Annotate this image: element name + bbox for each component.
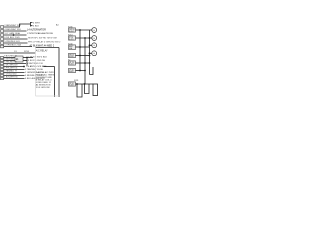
bus wire x89 [89,30,91,75]
svg-text:PHS LP RELAY 4 GRN HD SW 2: PHS LP RELAY 4 GRN HD SW 2 [28,41,61,44]
wire pin2 [4,30,27,32]
wire B5 [4,69,25,71]
svg-text:S214: S214 [68,34,72,36]
connector C201 pin 5 box [1,42,4,45]
wire B6 [4,72,25,74]
wire R6 [76,70,86,72]
connector C202 pin 4 box [1,65,4,67]
svg-text:S2: S2 [68,59,70,61]
svg-text:A 590: A 590 [69,55,73,58]
svg-text:G: G [93,38,95,40]
fuse box R6 [69,68,76,72]
connector C201 pin 2 box [1,30,4,33]
svg-text:2 BRN/WHT 204: 2 BRN/WHT 204 [4,25,21,27]
junction dot R5 bus89 [89,62,91,64]
svg-text:A WHT/RED 118: A WHT/RED 118 [27,62,44,65]
wire feed y53 [0,52,36,54]
svg-text:1 D: 1 D [14,51,18,53]
fuse box R1 [69,28,76,32]
background [0,0,100,100]
connector C202 pin 2 box [1,59,4,61]
svg-text:S240: S240 [68,43,72,45]
svg-text:8 BLK/RED 21: 8 BLK/RED 21 [4,55,18,57]
fuse box R4 [69,53,76,57]
svg-text:3 GRY/RED 14: 3 GRY/RED 14 [4,58,18,60]
svg-text:A/C RELAY: A/C RELAY [36,49,48,52]
stub to ground G3 [90,44,93,46]
junction dot B4 [23,66,25,68]
svg-text:5 PNK/BLK 441: 5 PNK/BLK 441 [4,41,20,43]
junction dot G3 stub [89,44,91,46]
component box U1 outline top [36,47,60,49]
ground G2 [92,36,97,41]
svg-text:HIGH SPL SW HD TM W GM: HIGH SPL SW HD TM W GM [28,38,57,40]
svg-text:A 115: A 115 [69,38,73,41]
wire vertical branch [26,58,28,67]
wire B4 [4,66,25,68]
junction dot R3 bus80 [79,46,81,48]
connector C201 pin 1 box [1,26,4,29]
svg-text:L MODE SW 4 BLK: L MODE SW 4 BLK [28,56,48,58]
wire R2 to G2 [76,37,93,39]
component box U1 outline left [35,48,37,97]
component box U1 outline right [58,48,60,98]
wire R3 to G3 [76,46,90,48]
ground G4 [92,51,97,56]
connector C201 pin 3 box [1,34,4,37]
svg-text:3 LT GRN 150A: 3 LT GRN 150A [4,32,20,35]
svg-text:5 YEL/BLK 66: 5 YEL/BLK 66 [4,61,17,63]
fuse box R7 [69,82,76,86]
wire R1 to G1 [76,29,93,31]
wire pin5 [4,42,28,44]
svg-text:3 TAN/WHT FUSE: 3 TAN/WHT FUSE [25,68,44,71]
svg-text:1 ORG/BLK 2 A4: 1 ORG/BLK 2 A4 [4,43,21,46]
inline component box F1 [15,56,23,62]
wire B4 continue [44,66,55,68]
svg-text:4 BODY GND 2A: 4 BODY GND 2A [28,59,45,62]
junction dot G4 stub [89,52,91,54]
svg-text:4 TAN/BLK 77: 4 TAN/BLK 77 [4,69,17,72]
svg-text:6 DK BLU 2 HD: 6 DK BLU 2 HD [4,37,20,39]
svg-text:4 BLK: 4 BLK [33,26,39,28]
svg-text:S206: S206 [68,26,72,28]
svg-text:C NTR TM AD A ALTR SW: C NTR TM AD A ALTR SW [27,32,54,35]
connector C202 pin 1 box [1,56,4,58]
wire pin6 [4,46,32,48]
svg-text:A 204: A 204 [69,30,73,33]
ground G3 [92,43,97,48]
stub to ground G4 [90,52,93,54]
junction dot R7 a [76,83,78,85]
junction dot R2 bus [84,37,86,39]
junction dot R7 b [84,83,86,85]
svg-text:7 LT BLU 250: 7 LT BLU 250 [4,73,17,75]
wire B8 [4,78,25,80]
svg-text:A 662: A 662 [69,70,73,73]
junction dot bus89 row2 [89,37,91,39]
svg-text:4 WHT: 4 WHT [33,22,40,24]
fuse box R2 [69,36,76,40]
component box U1 outline bottom [36,95,60,97]
svg-text:G: G [93,53,95,55]
svg-text:A2 BLK/WHT A4 MED 2: A2 BLK/WHT A4 MED 2 [30,44,55,47]
junction dot R6 bus85 [84,70,86,72]
junction dot R6 bus80 [79,70,81,72]
svg-text:4 RED/WHT 318: 4 RED/WHT 318 [4,29,21,31]
junction dot R5 bus85 [84,62,86,64]
svg-text:S281: S281 [74,80,78,82]
bus wire x80 [79,30,81,71]
svg-text:1 BLK/WHT 90: 1 BLK/WHT 90 [4,76,18,78]
wire B7 [4,75,25,77]
svg-text:6 PPL/WHT 31: 6 PPL/WHT 31 [4,67,18,69]
bus wire x85 [84,38,86,84]
svg-text:G: G [93,30,95,32]
fuse box R5 [69,61,76,65]
svg-text:4 ANTI-LOCK BRK: 4 ANTI-LOCK BRK [28,65,47,68]
connector C201 pin 6 box [1,45,4,48]
wire B4 drop [54,67,56,98]
junction dot B1 [26,57,28,59]
svg-text:A 108: A 108 [69,84,73,87]
connector C202 pin 5 box [1,68,4,70]
svg-text:2 DK GRN 118: 2 DK GRN 118 [4,64,18,66]
wire loop right mid [90,67,94,75]
wire B3 [4,63,27,65]
svg-text:G: G [93,45,95,47]
wire R5 [76,62,90,64]
wire loop bottom 2 [85,84,90,94]
wire B1 out [23,57,33,59]
wire B2 [4,60,16,62]
wire B1 [4,57,16,59]
fuse box R3 [69,45,76,50]
ground G1 [92,28,97,33]
connector C202 pin 8 box [1,77,4,79]
wire R7 [76,83,94,85]
wire pin4 [4,38,28,40]
junction dot R4 bus80 [79,55,81,57]
connector C202 pin 6 box [1,71,4,73]
svg-text:L4 ALTERNATOR: L4 ALTERNATOR [27,29,46,32]
svg-text:3 DK GRN SW: 3 DK GRN SW [36,87,50,89]
connector C201 pin 4 box [1,38,4,41]
wire loop bottom 1 [77,84,82,97]
wire R4 to G4 [76,55,90,57]
wire loop bottom 3 [93,84,98,96]
bracket at wire 1 end [31,22,33,27]
connector C202 pin 7 box [1,74,4,76]
junction dot R1 bus [79,29,81,31]
svg-text:S234: S234 [24,51,30,53]
connector C202 pin 3 box [1,62,4,64]
wire pin1 to bracket [4,24,31,27]
splice dot S1 [13,34,15,36]
wire B2 out [23,60,28,62]
svg-text:A 341: A 341 [69,63,73,66]
wire pin3 [4,34,27,36]
junction dot R4 bus89 [89,55,91,57]
